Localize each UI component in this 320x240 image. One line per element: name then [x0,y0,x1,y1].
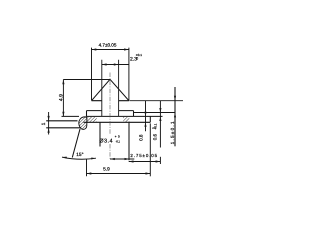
svg-text:4.7±0.05: 4.7±0.05 [99,43,117,48]
svg-text:2.75±0.05: 2.75±0.05 [130,153,158,158]
svg-text:0.6: 0.6 [152,133,157,140]
svg-text:15°: 15° [76,152,83,158]
svg-text:1: 1 [41,122,47,125]
svg-text:5.9: 5.9 [103,166,110,172]
svg-text:0: 0 [136,57,138,61]
svg-text:0.8: 0.8 [139,134,144,141]
svg-text:-0.1: -0.1 [116,139,121,143]
svg-text:1.5±0.1: 1.5±0.1 [170,120,175,144]
svg-text:Ø3.4: Ø3.4 [99,139,113,145]
svg-text:+0: +0 [115,135,121,139]
svg-text:4.9: 4.9 [58,94,64,101]
